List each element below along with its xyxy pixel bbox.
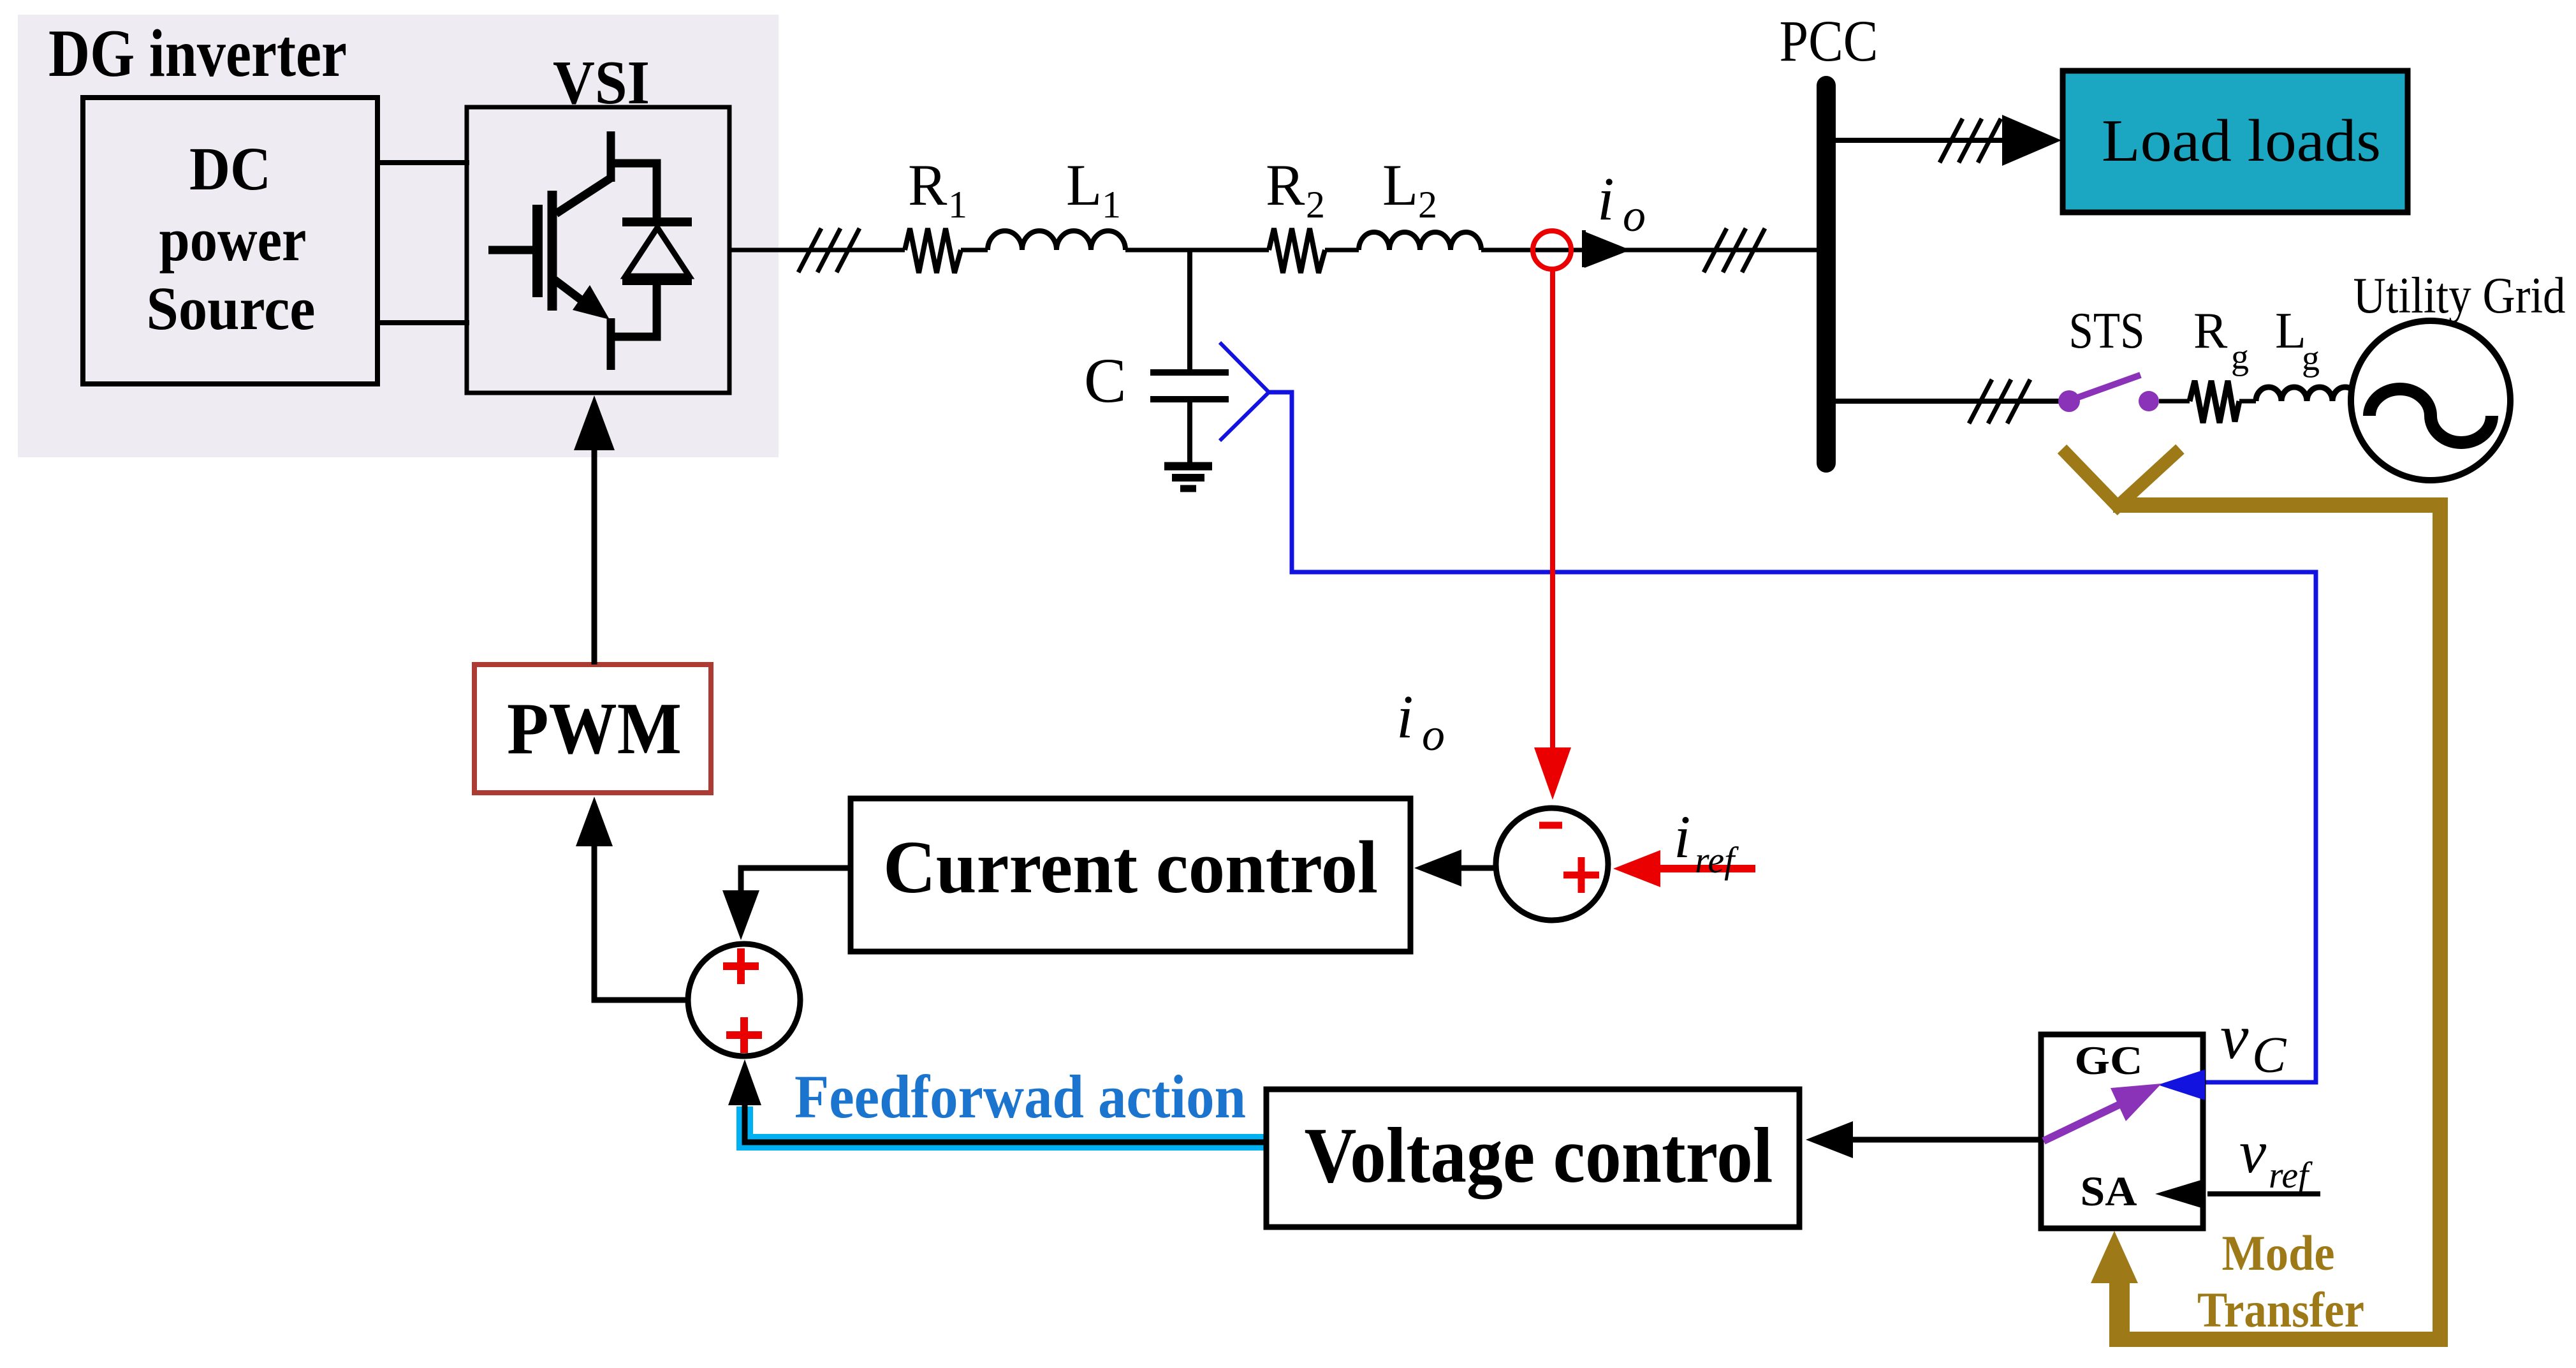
switch STS left pole dot — [2058, 390, 2080, 412]
mode transfer arrow into SA — [2091, 1231, 2138, 1283]
wire Lg to grid — [2350, 399, 2358, 404]
capacitor C bottom plate — [1150, 396, 1229, 402]
PCC bus bar — [1817, 76, 1836, 473]
svg-text:Transfer: Transfer — [2197, 1282, 2364, 1337]
svg-text:Feedforwad action: Feedforwad action — [794, 1063, 1246, 1131]
diode D1 anode bar — [622, 276, 692, 285]
transistor Q1 emitter lead — [607, 318, 615, 370]
iref arrow (red) — [1658, 865, 1755, 872]
svg-text:R: R — [1266, 152, 1305, 217]
inductor L1 — [988, 231, 1125, 250]
switch STS right pole dot — [2139, 391, 2159, 411]
svg-text:ref: ref — [1695, 839, 1739, 881]
transistor Q1 collector diagonal — [556, 178, 611, 214]
wire PCC to loads — [1836, 138, 2028, 143]
wire emitter jog — [611, 281, 657, 337]
mode transfer wire top (olive) — [2113, 505, 2440, 1339]
arrow into VSI bottom — [574, 395, 615, 450]
summing junction S1 — [1496, 808, 1608, 920]
arrow io on wire — [1584, 232, 1630, 268]
wire Rg-Lg — [2239, 399, 2256, 404]
svg-text:v: v — [2239, 1118, 2267, 1186]
svg-text:Voltage control: Voltage control — [1305, 1112, 1773, 1200]
Load loads box — [2063, 71, 2408, 212]
wire DC bus top — [377, 160, 469, 165]
wire vC (blue) — [1269, 392, 2316, 1082]
arrowhead into load box — [2002, 115, 2061, 166]
transistor Q1 body bar — [548, 191, 557, 311]
svg-text:ref: ref — [2269, 1154, 2313, 1196]
wire capacitor to ground — [1187, 402, 1192, 464]
diode D1 cathode bar — [622, 217, 692, 226]
inductor Lg — [2256, 387, 2358, 401]
resistor R2 — [1269, 228, 1325, 273]
S1 minus sign — [1539, 822, 1562, 829]
svg-text:i: i — [1396, 682, 1414, 751]
node: LC junction wire down — [1187, 250, 1192, 371]
svg-text:Mode: Mode — [2222, 1225, 2335, 1281]
svg-text:Current control: Current control — [883, 825, 1378, 909]
utility grid source circle — [2351, 321, 2510, 480]
svg-text:2: 2 — [1306, 184, 1325, 226]
S1 plus sign — [1563, 857, 1599, 893]
arrow into S2 bottom — [728, 1059, 761, 1105]
transistor Q1 emitter arrowhead — [573, 285, 610, 320]
svg-text:1: 1 — [1102, 184, 1121, 226]
svg-text:Utility Grid: Utility Grid — [2353, 268, 2566, 324]
wire Current control to S2 — [741, 868, 851, 893]
resistor Rg — [2190, 381, 2239, 423]
svg-text:power: power — [159, 205, 307, 274]
PWM box — [474, 665, 711, 793]
wire DC bus bottom — [377, 320, 469, 325]
transistor Q1 emitter diagonal — [555, 280, 596, 311]
svg-text:PWM: PWM — [507, 688, 682, 769]
diode D1 triangle — [626, 228, 689, 276]
svg-text:C: C — [1084, 345, 1127, 416]
wire STS to Rg — [2159, 399, 2190, 404]
svg-text:Load loads: Load loads — [2102, 108, 2381, 174]
svg-text:R: R — [908, 152, 948, 217]
inductor L2 — [1359, 232, 1481, 250]
S2 plus top — [723, 948, 759, 984]
svg-text:VSI: VSI — [553, 48, 650, 117]
svg-text:1: 1 — [948, 184, 967, 226]
wire L1 to node — [1125, 248, 1269, 253]
GC/SA box — [2041, 1034, 2203, 1228]
svg-text:L: L — [1382, 152, 1418, 217]
svg-text:i: i — [1674, 803, 1690, 871]
three-phase slashes before PCC — [1704, 228, 1765, 272]
vref arrowhead into SA — [2155, 1179, 2204, 1209]
svg-text:C: C — [2252, 1027, 2287, 1084]
DG inverter shaded panel — [18, 15, 779, 457]
svg-text:o: o — [1422, 709, 1445, 760]
DC power source box — [83, 98, 377, 384]
feedforward cyan line — [745, 1107, 1266, 1142]
svg-text:g: g — [2302, 339, 2320, 378]
svg-text:v: v — [2220, 1001, 2249, 1072]
feedforward black line — [745, 1103, 1266, 1142]
S2 plus bottom — [726, 1017, 762, 1053]
svg-text:i: i — [1597, 165, 1614, 233]
wire collector jog — [611, 163, 657, 221]
svg-text:2: 2 — [1418, 184, 1437, 226]
transistor Q1 collector lead — [607, 131, 615, 182]
current sensor ring (red) — [1533, 231, 1571, 269]
mode transfer arrowhead arms near STS (olive) — [2062, 449, 2180, 506]
wire PWM to VSI — [592, 446, 597, 665]
three-phase slashes load branch — [1940, 119, 2001, 163]
wire VSI output — [729, 248, 905, 253]
arrow into S2 top — [722, 890, 759, 940]
svg-text:Source: Source — [147, 274, 316, 342]
red arrow down into summing junction — [1534, 747, 1571, 800]
svg-text:R: R — [2193, 303, 2228, 359]
VSI box — [467, 107, 729, 393]
wire R1-L1 — [961, 248, 988, 253]
blue arrowhead into GC — [2158, 1070, 2205, 1100]
arrow into PWM bottom — [576, 797, 613, 846]
Current control box — [851, 798, 1410, 952]
transistor Q1 (IGBT) gate lead — [488, 246, 539, 254]
wire S2 to PWM — [594, 842, 688, 1000]
Voltage control box — [1266, 1089, 1799, 1227]
resistor R1 — [905, 228, 961, 273]
voltage probe (blue) at capacitor — [1220, 342, 1269, 441]
svg-text:g: g — [2231, 337, 2249, 377]
red feedback wire io — [1550, 268, 1555, 749]
wire PCC to STS — [1836, 399, 2061, 404]
three-phase slashes after VSI — [798, 228, 860, 272]
three-phase slashes grid branch — [1969, 379, 2030, 423]
wire R2-L2 — [1325, 248, 1359, 253]
purple arrowhead — [2111, 1084, 2162, 1121]
svg-text:L: L — [1066, 152, 1102, 217]
svg-text:SA: SA — [2081, 1168, 2137, 1215]
summing junction S2 — [688, 944, 800, 1056]
svg-text:GC: GC — [2075, 1038, 2143, 1083]
svg-text:o: o — [1623, 190, 1646, 241]
svg-text:DG inverter: DG inverter — [48, 16, 347, 91]
svg-text:DC: DC — [189, 135, 271, 203]
ground — [1164, 466, 1212, 489]
svg-text:PCC: PCC — [1780, 8, 1878, 73]
svg-text:STS: STS — [2069, 303, 2145, 359]
capacitor C top plate — [1150, 369, 1229, 376]
wire L2 to sensor — [1481, 248, 1818, 253]
vref wire — [2207, 1191, 2320, 1196]
switch arm purple in GC/SA — [2044, 1103, 2123, 1141]
utility grid sine — [2369, 389, 2492, 443]
transistor Q1 gate bar — [532, 205, 543, 297]
arrow GC/SA to Voltage control — [1849, 1137, 2041, 1143]
arrow S1 to Current control — [1457, 865, 1496, 871]
switch STS arm — [2071, 375, 2141, 400]
